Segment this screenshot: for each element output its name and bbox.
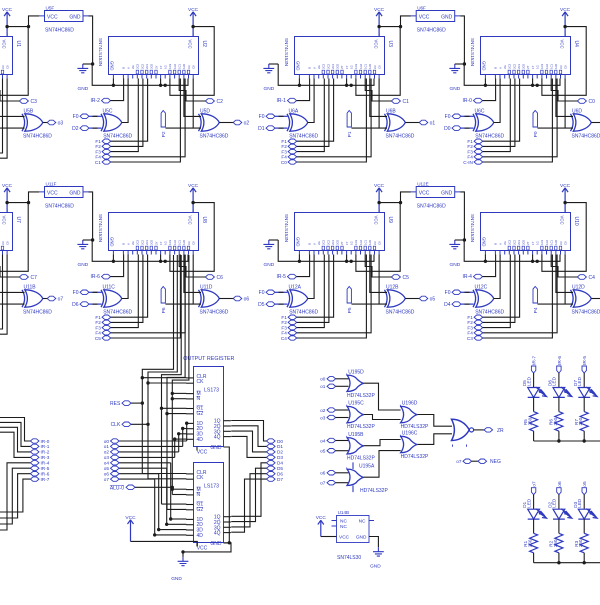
svg-text:2C0: 2C0 — [522, 239, 526, 244]
wire D6 — [231, 474, 266, 527]
svg-text:A: A — [312, 67, 316, 69]
svg-text:GND: GND — [109, 61, 114, 71]
svg-text:OUTPUT REGISTER: OUTPUT REGISTER — [183, 356, 234, 362]
wire o6 — [558, 495, 560, 510]
svg-text:IR-6: IR-6 — [557, 356, 563, 365]
input pin F2 — [467, 144, 482, 149]
svg-text:2C1: 2C1 — [145, 63, 149, 68]
input pin F2 — [467, 320, 482, 325]
LED D1 — [522, 498, 546, 519]
svg-text:2Y: 2Y — [154, 241, 158, 244]
svg-text:P4: P4 — [533, 307, 539, 313]
wire D2 — [231, 431, 266, 452]
svg-text:VCC: VCC — [339, 535, 350, 541]
LED D5 — [522, 376, 546, 397]
ground symbol near U4 — [449, 64, 460, 92]
wire to C1 — [365, 79, 391, 102]
wire o2 to register — [119, 432, 186, 452]
wire IR-4 to select pin — [483, 255, 496, 277]
wire U11F GND — [89, 192, 95, 242]
wire o5 — [336, 450, 349, 452]
wire IR-4 — [0, 463, 30, 530]
power unit U5F — [39, 5, 89, 33]
input pin RES — [110, 401, 131, 407]
svg-text:U4: U4 — [573, 41, 579, 48]
svg-text:C1: C1 — [403, 99, 410, 105]
wire F2 — [111, 255, 143, 323]
svg-text:D1: D1 — [277, 444, 283, 449]
svg-text:U2: U2 — [201, 41, 207, 48]
wire F0 to gate — [275, 115, 288, 117]
wire F4 — [111, 79, 185, 157]
svg-text:C5: C5 — [403, 275, 410, 281]
svg-text:F0: F0 — [259, 114, 265, 120]
svg-text:2G: 2G — [503, 241, 507, 245]
wire IR-3 — [0, 432, 30, 457]
wire o5 — [583, 495, 585, 510]
svg-text:GND: GND — [450, 86, 461, 92]
wire IR-0 to select pin — [483, 79, 496, 101]
input pin C3 — [467, 336, 483, 341]
wire D3 — [231, 436, 266, 457]
svg-text:1C1: 1C1 — [364, 63, 368, 68]
svg-text:U14B: U14B — [338, 510, 350, 515]
svg-text:GND: GND — [78, 86, 89, 92]
svg-text:2C1: 2C1 — [145, 239, 149, 244]
ground symbol near U8 — [77, 240, 88, 268]
svg-text:D2: D2 — [277, 450, 283, 455]
input pin IR-6 — [90, 274, 110, 280]
wire o3 — [336, 417, 349, 419]
svg-text:1Y: 1Y — [159, 241, 163, 244]
svg-text:o5: o5 — [104, 466, 110, 471]
node D0 register output — [267, 439, 284, 444]
svg-text:U1: U1 — [15, 41, 21, 48]
wire to C2 — [179, 79, 205, 102]
input pin IR-5 — [276, 274, 296, 280]
svg-text:o4: o4 — [104, 461, 110, 466]
svg-text:o7: o7 — [58, 297, 64, 303]
wire G1 net — [160, 255, 187, 504]
input pin CLK — [111, 422, 131, 428]
IC U4 SN74LS153N multiplexer — [470, 37, 579, 75]
wire D5 — [231, 468, 266, 521]
wire IR-2 — [0, 427, 30, 452]
svg-text:GND: GND — [69, 191, 81, 197]
input pin D0 — [444, 126, 461, 132]
svg-text:2Y: 2Y — [526, 241, 530, 244]
svg-text:1C1: 1C1 — [364, 239, 368, 244]
XOR gate U12D — [571, 284, 600, 315]
svg-text:1Y: 1Y — [345, 241, 349, 244]
svg-text:o5: o5 — [430, 297, 436, 303]
wire ALU-0 — [135, 486, 174, 489]
svg-text:2G: 2G — [317, 241, 321, 245]
node D7 register output — [267, 477, 284, 482]
wire F0 to gate — [89, 291, 102, 293]
svg-text:GND: GND — [356, 535, 367, 541]
svg-text:o4: o4 — [320, 438, 326, 443]
svg-text:2C3: 2C3 — [322, 239, 326, 244]
svg-text:o0: o0 — [104, 439, 110, 444]
wire D0 to gate — [461, 127, 474, 129]
wire ground rail — [455, 240, 560, 263]
wire resistor R5 down — [533, 431, 535, 441]
wire D7 — [231, 479, 266, 532]
IC U2 SN74LS153N multiplexer — [98, 37, 207, 75]
wire U12E VCC — [399, 192, 411, 204]
wire IR-6 to select pin — [111, 255, 124, 277]
svg-text:1G: 1G — [164, 241, 168, 245]
svg-text:1C1: 1C1 — [550, 239, 554, 244]
svg-text:D7: D7 — [277, 477, 283, 482]
svg-text:2C3: 2C3 — [136, 239, 140, 244]
node IR-2 — [30, 450, 49, 455]
svg-text:2G: 2G — [503, 65, 507, 69]
svg-text:2C1: 2C1 — [517, 63, 521, 68]
wire o7 — [533, 495, 535, 510]
input pin D4 — [444, 302, 461, 308]
svg-text:GND: GND — [450, 262, 461, 268]
carry output C1 — [391, 99, 409, 105]
svg-text:U9: U9 — [387, 217, 393, 224]
register U15 LS173 — [186, 367, 231, 456]
svg-text:1G: 1G — [350, 65, 354, 69]
svg-text:4Q: 4Q — [214, 531, 221, 537]
resistor R6 250 — [549, 412, 563, 432]
svg-text:C0: C0 — [377, 241, 381, 245]
wire U195B out — [364, 440, 401, 446]
svg-text:2C1: 2C1 — [331, 63, 335, 68]
svg-text:A: A — [312, 243, 316, 245]
svg-text:o3: o3 — [320, 415, 326, 420]
XOR gate U5B — [22, 108, 52, 139]
svg-text:o6: o6 — [244, 297, 250, 303]
svg-text:1C2: 1C2 — [173, 63, 177, 68]
svg-text:2C3: 2C3 — [136, 63, 140, 68]
wire F1 — [483, 255, 520, 318]
svg-text:2C2: 2C2 — [512, 63, 516, 68]
wire U12C output — [494, 255, 500, 299]
svg-text:2C1: 2C1 — [331, 239, 335, 244]
svg-text:C3: C3 — [373, 65, 377, 69]
svg-text:IR-0: IR-0 — [41, 439, 50, 444]
resistor R1 250 — [523, 533, 537, 553]
svg-text:GND: GND — [210, 445, 222, 451]
svg-text:A: A — [126, 67, 130, 69]
input pin F0 — [73, 114, 89, 120]
svg-text:2C2: 2C2 — [140, 63, 144, 68]
wire o0 — [336, 378, 349, 380]
svg-text:CK: CK — [197, 475, 205, 481]
svg-text:IR-3: IR-3 — [41, 455, 50, 460]
svg-text:2C0: 2C0 — [150, 239, 154, 244]
svg-text:VCC: VCC — [374, 40, 379, 49]
carry output C5 — [391, 275, 409, 281]
wire stub exits — [0, 255, 7, 335]
svg-text:C3: C3 — [31, 99, 38, 105]
input pin C0 — [281, 160, 297, 165]
wire LED bank rail — [534, 439, 600, 442]
node o4 zero-detect input — [320, 438, 335, 443]
node o5 zero-detect input — [320, 449, 335, 454]
input pin F0 — [259, 290, 275, 296]
wire o7 to NEG — [472, 460, 478, 462]
VCC power symbol U14B — [316, 515, 327, 536]
node IR-4 — [30, 461, 49, 466]
wire U12E GND — [460, 192, 466, 242]
svg-text:VCC: VCC — [197, 546, 208, 552]
wire ground rail — [83, 240, 188, 263]
svg-text:SN74HC86D: SN74HC86D — [289, 309, 318, 315]
svg-text:SN74HC86D: SN74HC86D — [200, 309, 229, 315]
carry output C4 — [577, 275, 595, 281]
wire U6F VCC — [399, 16, 411, 28]
wire LED to resistor R2 — [558, 519, 560, 533]
svg-text:SN74HC86D: SN74HC86D — [103, 133, 132, 139]
svg-text:o7: o7 — [104, 477, 110, 482]
wire to C0 — [551, 79, 577, 102]
svg-text:B: B — [308, 243, 312, 245]
power unit U11F — [39, 181, 89, 209]
svg-text:SN74HC86D: SN74HC86D — [386, 309, 415, 315]
ground symbol near U9 — [263, 240, 274, 268]
node o6 zero-detect input — [320, 471, 335, 476]
svg-text:LED: LED — [526, 376, 531, 386]
ground symbol near U3 — [263, 64, 274, 92]
input pin F3 — [95, 325, 110, 330]
wire U6F GND — [460, 16, 466, 66]
svg-text:2Y: 2Y — [154, 65, 158, 68]
svg-text:LED: LED — [577, 376, 582, 386]
svg-text:VCC: VCC — [47, 191, 58, 197]
svg-text:C0: C0 — [5, 241, 9, 245]
node o1 zero-detect input — [320, 384, 335, 389]
wire F2 — [483, 79, 515, 147]
svg-text:o6: o6 — [320, 471, 326, 476]
node D2 register output — [267, 450, 284, 455]
svg-text:U11F: U11F — [46, 181, 57, 186]
IC U9 SN74LS153N multiplexer — [284, 213, 393, 251]
svg-text:HD74LS32P: HD74LS32P — [401, 454, 429, 460]
input pin F1 — [95, 315, 110, 320]
LED D3 — [573, 498, 597, 519]
svg-text:1C3: 1C3 — [540, 239, 544, 244]
wire M N net — [171, 255, 189, 495]
wire o2 — [336, 409, 349, 411]
wire C1 — [111, 79, 181, 163]
svg-text:o6: o6 — [557, 481, 563, 487]
svg-text:U196C: U196C — [402, 431, 418, 437]
svg-text:VCC: VCC — [419, 191, 430, 197]
node P4 — [533, 287, 539, 314]
wire D2 to gate — [89, 127, 102, 129]
svg-text:LED: LED — [552, 498, 557, 508]
svg-text:U6F: U6F — [417, 5, 426, 10]
node o0 zero-detect input — [320, 377, 335, 382]
input pin IR-2 — [90, 98, 110, 104]
IC U14B SN74LS30 — [332, 510, 375, 561]
wire D4 to gate — [461, 303, 474, 305]
VCC power symbol above U8 — [188, 183, 199, 213]
wire VCC tie — [356, 25, 400, 95]
svg-text:1Y: 1Y — [531, 65, 535, 68]
input pin F2 — [281, 320, 296, 325]
node P1 — [347, 111, 353, 138]
resistor R5 250 — [523, 412, 537, 432]
svg-text:o7: o7 — [320, 481, 326, 486]
svg-text:2C2: 2C2 — [326, 63, 330, 68]
VCC power symbol above U7 — [2, 183, 13, 213]
svg-text:SN74LS153N: SN74LS153N — [470, 38, 475, 66]
XOR gate U6D — [571, 108, 600, 139]
wire F4 — [297, 79, 371, 157]
svg-text:2C0: 2C0 — [336, 239, 340, 244]
wire C3 — [483, 255, 553, 339]
wire ground rail — [455, 64, 560, 87]
wire D0 — [231, 421, 266, 442]
wire IR-7 — [533, 373, 535, 388]
svg-text:SN74HC86D: SN74HC86D — [23, 309, 52, 315]
svg-text:RES: RES — [110, 401, 121, 407]
wire C4 — [297, 255, 367, 339]
svg-text:C2: C2 — [217, 99, 224, 105]
wire F1 — [111, 79, 148, 142]
input pin D5 — [258, 302, 275, 308]
svg-text:LS173: LS173 — [204, 388, 219, 394]
pins of U9 — [299, 209, 379, 255]
svg-text:o3: o3 — [104, 455, 110, 460]
svg-text:2C3: 2C3 — [508, 63, 512, 68]
svg-text:U10: U10 — [573, 217, 579, 226]
wire register VCC — [131, 541, 198, 546]
wire U196C out — [418, 434, 452, 445]
output pin o2 — [219, 120, 249, 126]
wire F3 — [297, 79, 325, 152]
node o7 LED input — [531, 481, 537, 495]
node o2 register input — [104, 450, 119, 455]
svg-text:IR-2: IR-2 — [41, 450, 50, 455]
input pin F2 — [281, 144, 296, 149]
svg-text:2G: 2G — [131, 65, 135, 69]
input pin ALU-0 — [110, 485, 135, 491]
svg-text:VCC: VCC — [560, 40, 565, 49]
svg-text:NC: NC — [340, 519, 347, 525]
svg-text:C6: C6 — [217, 275, 224, 281]
wire ground rail — [269, 64, 374, 87]
svg-text:B: B — [494, 243, 498, 245]
input pin D2 — [72, 126, 89, 132]
wire F1 — [111, 255, 148, 318]
svg-text:1C1: 1C1 — [178, 63, 182, 68]
VCC power symbol above U2 — [188, 7, 199, 37]
pins of U2 — [113, 33, 193, 79]
wire C5 — [111, 255, 181, 339]
svg-text:U195C: U195C — [348, 401, 364, 407]
svg-text:C4: C4 — [281, 336, 287, 341]
svg-text:1G: 1G — [350, 241, 354, 245]
svg-text:GND: GND — [481, 61, 486, 71]
carry output C7 — [19, 275, 37, 281]
output pin o4 — [591, 296, 600, 302]
svg-text:2C0: 2C0 — [522, 63, 526, 68]
XOR gate U12B — [385, 284, 415, 315]
wire o5 to register — [119, 468, 186, 526]
svg-text:D1: D1 — [258, 126, 265, 132]
pins of U4 — [485, 33, 565, 79]
wire CLK net — [131, 255, 186, 479]
node IR-7 — [30, 477, 49, 482]
output pin NEG — [478, 459, 501, 465]
input pin F0 — [73, 290, 89, 296]
svg-text:VCC: VCC — [2, 40, 7, 49]
carry output C3 — [19, 99, 37, 105]
svg-text:VCC: VCC — [374, 216, 379, 225]
svg-text:o3: o3 — [58, 121, 64, 127]
svg-text:B: B — [122, 67, 126, 69]
OR gate U195C — [347, 401, 375, 431]
svg-text:C3: C3 — [187, 241, 191, 245]
svg-text:IR-4: IR-4 — [462, 274, 472, 280]
wire U5D inputs — [166, 79, 202, 129]
wire VCC tie — [0, 201, 28, 271]
svg-text:C0: C0 — [281, 160, 287, 165]
svg-text:F0: F0 — [73, 290, 79, 296]
svg-text:VCC: VCC — [47, 15, 58, 21]
input pin F1 — [281, 139, 296, 144]
svg-text:C3: C3 — [559, 241, 563, 245]
wire o1 to register — [119, 427, 186, 447]
power unit U12E — [411, 181, 461, 209]
IC U10 SN74LS153N multiplexer — [470, 213, 579, 251]
svg-text:IR-6: IR-6 — [41, 472, 50, 477]
XOR gate U5D — [199, 108, 229, 139]
input pin F1 — [467, 315, 482, 320]
wire VCC tie — [0, 25, 28, 95]
wire U12B inputs — [352, 255, 388, 305]
pins of U7 — [0, 209, 7, 255]
svg-text:C4: C4 — [589, 275, 596, 281]
output pin o0 — [591, 120, 600, 126]
svg-text:U5F: U5F — [46, 5, 55, 10]
wire F1 — [297, 79, 334, 142]
wire register GND — [181, 447, 231, 557]
carry output C0 — [577, 99, 595, 105]
svg-text:HD74LS32P: HD74LS32P — [360, 488, 388, 494]
svg-text:SN74HC86D: SN74HC86D — [475, 133, 504, 139]
svg-text:GND: GND — [69, 15, 81, 21]
svg-text:U7: U7 — [15, 217, 21, 224]
node o3 zero-detect input — [320, 415, 335, 420]
svg-text:C3: C3 — [373, 241, 377, 245]
svg-text:GND: GND — [370, 563, 381, 569]
wire U5C output — [122, 79, 128, 123]
svg-text:2Y: 2Y — [340, 241, 344, 244]
ground symbol near U10 — [449, 240, 460, 268]
svg-text:C3: C3 — [1, 241, 5, 245]
carry output C2 — [205, 99, 223, 105]
svg-text:IR-5: IR-5 — [582, 356, 588, 365]
svg-text:2C3: 2C3 — [322, 63, 326, 68]
output pin o1 — [405, 120, 435, 126]
svg-text:B: B — [308, 67, 312, 69]
svg-text:1C0: 1C0 — [368, 63, 372, 68]
LED D6 — [548, 376, 572, 397]
node o0 register input — [104, 439, 119, 444]
input pin F0 — [445, 114, 461, 120]
svg-text:HD74LS32P: HD74LS32P — [347, 424, 375, 430]
input pin F4 — [467, 155, 482, 160]
